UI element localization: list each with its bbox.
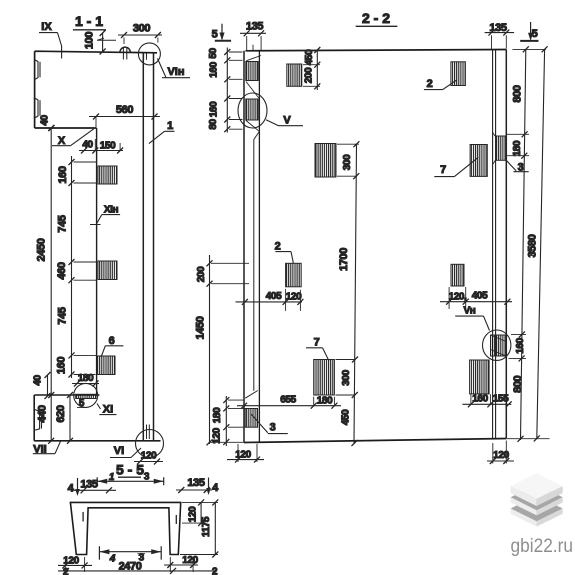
svg-text:560: 560 — [116, 104, 133, 116]
field plate 7 bottom right — [470, 360, 490, 394]
SECTION_1_1 — [33, 13, 191, 465]
svg-text:160: 160 — [209, 101, 220, 117]
label 3 bottom left — [251, 414, 288, 434]
loop legs in circle — [144, 54, 147, 60]
label 5 in circle — [77, 398, 87, 409]
svg-text:3: 3 — [144, 472, 150, 483]
svg-text:2: 2 — [63, 567, 69, 575]
svg-text:155: 155 — [493, 394, 509, 405]
bottom embed plate 5 — [76, 394, 96, 398]
svg-text:135: 135 — [80, 479, 97, 491]
svg-text:100: 100 — [84, 32, 96, 49]
section marker 5 left — [212, 24, 231, 41]
left column taper top — [254, 132, 259, 140]
svg-text:7: 7 — [440, 164, 446, 176]
panel face strip — [143, 53, 153, 441]
left column outer edge — [243, 51, 245, 443]
svg-text:180: 180 — [78, 373, 94, 384]
plate diagonal mid — [246, 82, 259, 99]
left column face line — [258, 51, 260, 443]
section mark 4 left — [68, 478, 80, 496]
svg-text:120: 120 — [141, 451, 157, 462]
label XI — [97, 404, 116, 416]
svg-text:gbi22.ru: gbi22.ru — [511, 536, 574, 557]
svg-text:4: 4 — [68, 483, 75, 495]
LOGO — [511, 473, 574, 557]
dim 560 — [89, 104, 160, 127]
label 2 top — [424, 78, 457, 90]
detail circle V — [238, 93, 267, 128]
bottom groove notch — [34, 409, 41, 430]
groove notch lower — [35, 98, 40, 118]
svg-text:450: 450 — [304, 49, 315, 65]
svg-text:7: 7 — [314, 337, 320, 349]
svg-text:3580: 3580 — [527, 234, 539, 257]
panel outline bottom edge — [244, 439, 507, 443]
detail circle VIn top — [138, 43, 160, 65]
dim 620 — [55, 392, 73, 444]
svg-text:6: 6 — [109, 335, 115, 347]
lifting loop — [120, 47, 130, 59]
rebar arrows 1 3 top — [97, 472, 164, 486]
plate diagonal top — [246, 56, 261, 61]
plate diagonal low — [246, 121, 259, 132]
svg-text:300: 300 — [133, 23, 150, 35]
svg-text:1 - 1: 1 - 1 — [75, 13, 103, 29]
bottom anchor legs — [147, 425, 150, 440]
label 2 bottom — [275, 241, 294, 264]
section marker 5 right — [520, 22, 538, 41]
svg-text:160: 160 — [56, 357, 68, 374]
svg-text:120: 120 — [212, 427, 223, 443]
logo slab bottom — [511, 496, 563, 527]
rebar dash left leg — [82, 512, 84, 522]
field plate 300 — [315, 144, 336, 178]
right column outer edge — [505, 50, 507, 439]
dim 655 180 — [237, 395, 341, 409]
label 1 — [149, 120, 175, 144]
svg-text:4: 4 — [212, 482, 219, 494]
left column taper bottom — [245, 391, 258, 399]
dim 100 — [84, 30, 117, 55]
svg-text:620: 620 — [55, 405, 67, 422]
dim 135 right — [176, 477, 212, 493]
svg-text:1: 1 — [109, 472, 115, 483]
title 1-1 — [73, 13, 106, 30]
panel outline top edge — [246, 50, 507, 51]
svg-text:5 - 5: 5 - 5 — [116, 462, 144, 478]
svg-text:160: 160 — [472, 394, 488, 405]
dim 450/200 — [303, 47, 320, 90]
mid dim chain 300/1700/300/450 — [336, 141, 360, 446]
svg-text:80: 80 — [208, 119, 219, 130]
overall dim 3580 — [527, 46, 548, 441]
svg-text:800: 800 — [512, 375, 524, 392]
detail circle 5 — [74, 383, 98, 407]
svg-text:450: 450 — [341, 409, 352, 425]
label VIn — [158, 59, 191, 79]
svg-text:XIн: XIн — [104, 205, 119, 216]
label Vn — [455, 306, 489, 331]
svg-text:5: 5 — [212, 29, 218, 41]
dim 120 405 right — [440, 287, 512, 309]
svg-text:Vн: Vн — [464, 306, 476, 317]
right dim chain 800/180/160/800 — [507, 46, 550, 442]
field plate 450/200 — [287, 64, 302, 86]
svg-text:405: 405 — [266, 291, 282, 302]
field plate 7 bottom — [314, 360, 335, 396]
svg-text:2: 2 — [275, 241, 281, 253]
dim 405 120 left — [236, 289, 304, 311]
left col plate P2 — [246, 99, 258, 120]
panel top flange outline — [35, 51, 157, 128]
channel outline — [70, 502, 180, 554]
svg-text:2 - 2: 2 - 2 — [362, 10, 390, 26]
dim 1175 — [180, 499, 218, 557]
dim 120 bottom right — [164, 555, 199, 572]
left chain 50/160/160/80 — [208, 48, 243, 133]
label VI — [110, 445, 141, 458]
svg-text:VIн: VIн — [167, 66, 184, 78]
svg-text:800: 800 — [511, 85, 523, 102]
rebar arrows 4 3 inside — [99, 546, 161, 564]
dim 440 — [37, 405, 49, 422]
dim 40 150 step — [79, 139, 123, 154]
dim 120 bottom strip — [134, 451, 163, 465]
left column web line — [253, 140, 255, 391]
svg-text:3: 3 — [270, 422, 276, 434]
label 7 top — [434, 157, 478, 176]
detail circle VI bottom — [136, 430, 164, 458]
svg-text:4: 4 — [109, 554, 116, 565]
svg-text:50: 50 — [208, 48, 219, 59]
svg-text:300: 300 — [341, 369, 352, 385]
svg-text:2: 2 — [427, 78, 433, 90]
svg-text:160: 160 — [515, 337, 526, 353]
svg-text:745: 745 — [57, 215, 69, 232]
section mark 4 right — [206, 478, 219, 496]
SECTION_5_5 — [58, 462, 219, 575]
overall dim 2450 — [36, 125, 55, 444]
field plate above 120 405 — [451, 264, 464, 286]
svg-text:120: 120 — [182, 555, 198, 566]
label 3 top right — [506, 160, 529, 174]
label 7 bottom — [306, 337, 329, 362]
svg-text:200: 200 — [196, 266, 207, 282]
svg-text:120,: 120, — [449, 292, 467, 303]
svg-text:655: 655 — [280, 395, 296, 406]
right col plate 3 top — [493, 133, 507, 165]
right column face lines — [493, 50, 496, 439]
svg-text:VI: VI — [114, 445, 124, 457]
svg-text:300: 300 — [342, 154, 353, 170]
svg-text:1: 1 — [167, 120, 173, 132]
detail circle Vn — [483, 330, 511, 360]
svg-text:135: 135 — [187, 477, 204, 489]
dim 135 left — [73, 479, 116, 494]
svg-text:V: V — [283, 115, 291, 127]
dim 135 top right — [485, 22, 514, 49]
svg-text:460: 460 — [56, 262, 68, 279]
svg-text:40: 40 — [40, 115, 51, 126]
dim 120 bottom right col — [487, 441, 514, 465]
svg-text:1700: 1700 — [338, 248, 350, 271]
svg-text:120: 120 — [286, 292, 302, 303]
svg-text:160: 160 — [209, 61, 220, 77]
label 6 — [101, 335, 123, 357]
label X — [52, 129, 94, 147]
title 5-5 — [116, 462, 144, 478]
left col bottom plate 3 — [245, 409, 257, 428]
svg-text:2450: 2450 — [36, 238, 48, 261]
left dim chain 160/745/460/745/160 — [56, 156, 97, 378]
dim 40 bottom — [33, 372, 51, 399]
field plate 7 top — [470, 145, 487, 177]
rib web line — [96, 128, 98, 396]
logo slab top — [511, 473, 563, 506]
dim 2470 — [58, 561, 218, 575]
SECTION_2_2 — [195, 10, 550, 464]
field plate 2 top — [451, 62, 466, 86]
svg-text:2: 2 — [212, 567, 218, 575]
dim 120 bottom left — [58, 556, 92, 573]
dim 40 flange — [40, 115, 55, 131]
embed plate B1 — [98, 166, 117, 184]
svg-text:180: 180 — [512, 140, 523, 156]
field plate 2 bottom — [286, 263, 302, 287]
svg-text:200: 200 — [304, 67, 315, 83]
svg-text:180: 180 — [317, 396, 333, 407]
svg-text:120: 120 — [188, 506, 199, 522]
svg-text:440: 440 — [37, 405, 49, 422]
svg-text:XI: XI — [103, 404, 113, 416]
label V — [266, 115, 303, 127]
svg-text:150: 150 — [100, 141, 116, 152]
dim 300 — [118, 23, 162, 45]
embed plate B3 — [98, 356, 116, 375]
svg-text:1175: 1175 — [201, 516, 212, 537]
circled plate right col — [491, 335, 507, 356]
svg-text:40: 40 — [82, 140, 93, 151]
svg-text:160: 160 — [57, 166, 69, 183]
svg-text:745: 745 — [57, 307, 69, 324]
left bottom chain 180/120 — [212, 396, 246, 446]
svg-text:405: 405 — [472, 291, 488, 302]
svg-text:IX: IX — [41, 21, 52, 33]
label VII — [33, 441, 61, 455]
dim 200 / 1450 chain — [195, 255, 250, 445]
left col plate P1 — [246, 62, 258, 81]
rebar dash right leg — [175, 515, 177, 524]
dim 160 155 — [462, 394, 511, 408]
svg-text:40: 40 — [33, 375, 44, 386]
dim 120 bottom left col — [227, 444, 264, 463]
svg-text:180: 180 — [212, 407, 223, 423]
dim 180 bottom — [72, 373, 99, 387]
svg-text:1450: 1450 — [195, 316, 207, 339]
groove notch upper — [35, 60, 40, 80]
embed plate B2 — [98, 261, 117, 280]
dim 135 top left — [240, 21, 266, 52]
bottom rib outline — [34, 395, 160, 441]
label IX — [39, 21, 62, 59]
dim 120 right top — [182, 499, 204, 526]
title 2-2 — [356, 10, 398, 26]
label XIn — [90, 205, 120, 225]
logo slab middle — [511, 484, 563, 515]
